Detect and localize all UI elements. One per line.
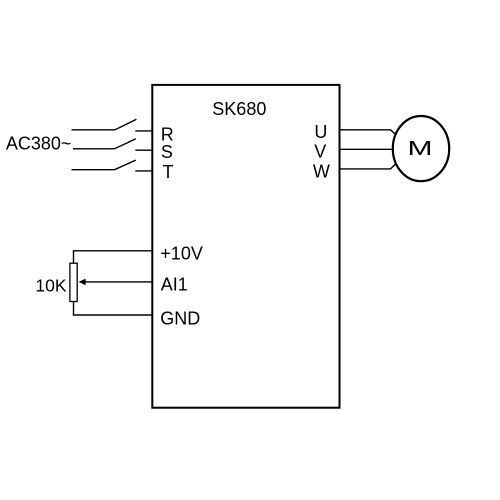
svg-text:AC380~: AC380~ (6, 134, 72, 154)
wire pot top to +10V (74, 251, 154, 263)
svg-text:M: M (408, 138, 433, 160)
inverter box U1 (SK680) (152, 85, 339, 408)
switch S3 blade (T phase) (115, 160, 136, 170)
wire R stub to box (135, 130, 152, 132)
svg-text:10K: 10K (35, 276, 66, 296)
svg-text:U: U (314, 122, 327, 142)
wire T stub to box (135, 170, 152, 172)
wire S stub to box (135, 149, 152, 151)
svg-text:V: V (314, 141, 326, 161)
wire U output to motor (341, 130, 397, 135)
wire T input (72, 169, 115, 171)
wiper arrowhead (79, 279, 86, 286)
svg-text:GND: GND (160, 308, 200, 328)
potentiometer RP body (70, 263, 77, 301)
switch S1 blade (R phase) (115, 119, 136, 130)
svg-text:S: S (161, 142, 173, 162)
switch S2 blade (S phase) (115, 139, 136, 149)
svg-text:SK680: SK680 (212, 99, 266, 119)
wire R input (72, 129, 116, 131)
wire V output to motor (341, 148, 394, 150)
motor M1 circle (393, 116, 449, 181)
wire W output to motor (341, 164, 397, 169)
wire pot bottom to GND (74, 302, 154, 316)
svg-text:+10V: +10V (160, 244, 203, 264)
wire S input (73, 148, 115, 150)
svg-text:T: T (163, 162, 174, 182)
wire wiper to AI1 (84, 281, 153, 283)
svg-text:W: W (313, 161, 330, 181)
svg-text:AI1: AI1 (161, 275, 188, 295)
